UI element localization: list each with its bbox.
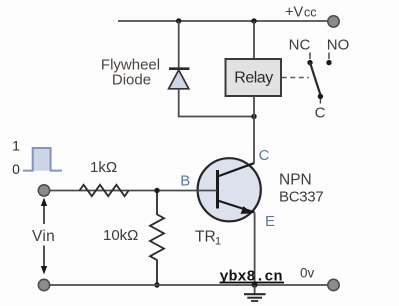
svg-text:0v: 0v xyxy=(300,266,315,281)
svg-text:+V: +V xyxy=(285,5,303,21)
svg-text:Vin: Vin xyxy=(32,228,55,245)
svg-text:NO: NO xyxy=(327,37,350,54)
svg-text:E: E xyxy=(265,213,275,230)
svg-text:NC: NC xyxy=(289,37,311,54)
svg-text:Relay: Relay xyxy=(234,70,273,87)
svg-text:NPN: NPN xyxy=(279,172,312,189)
svg-text:cc: cc xyxy=(304,6,317,20)
svg-text:BC337: BC337 xyxy=(279,189,323,206)
svg-text:0: 0 xyxy=(12,161,20,177)
svg-text:1kΩ: 1kΩ xyxy=(90,159,117,176)
svg-text:1: 1 xyxy=(12,138,20,154)
svg-text:1: 1 xyxy=(215,236,221,248)
svg-text:Diode: Diode xyxy=(112,72,151,89)
svg-text:C: C xyxy=(315,105,326,122)
svg-text:TR: TR xyxy=(195,229,216,246)
svg-text:B: B xyxy=(180,172,190,189)
svg-text:C: C xyxy=(259,147,270,164)
svg-text:10kΩ: 10kΩ xyxy=(103,227,138,244)
